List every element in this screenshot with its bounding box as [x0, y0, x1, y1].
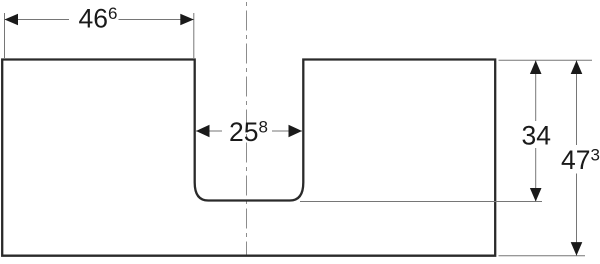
svg-text:34: 34 [522, 121, 551, 151]
dimension 473: bottom arrow [571, 242, 583, 256]
dimension 34: bottom arrow [530, 188, 542, 202]
dimension 473: vertical line upper segment [576, 61, 578, 146]
dimension 466: left arrow [5, 14, 19, 26]
dimension 466: left extension line [4, 13, 6, 58]
dimension 473: bottom extension line [499, 255, 586, 257]
dimension 34: vertical line lower segment [535, 148, 537, 202]
top right extension line (shared by 34 and 473) [499, 59, 593, 61]
dimension 473: top arrow [571, 61, 583, 75]
dimension 258: dimension line left segment [196, 130, 222, 132]
dimension 466: right extension line [193, 13, 195, 58]
dimension 258: dimension line right segment [272, 130, 302, 132]
dimension 466: dimension line left segment [5, 19, 70, 21]
dimension 466: right arrow [180, 14, 194, 26]
dimension 258: left arrow [196, 125, 210, 138]
centerline (vertical dash-dot axis) [246, 2, 248, 256]
dimension 258: right arrow [289, 125, 303, 138]
countertop outline with U-shaped cutout [2, 60, 495, 256]
dimension 466: dimension line right segment [119, 19, 194, 21]
dimension 34: vertical line upper segment [535, 61, 537, 122]
dimension 473: vertical line lower segment [576, 174, 578, 256]
dimension 34: bottom extension line [300, 201, 542, 203]
dimension 34: top arrow [530, 61, 542, 75]
